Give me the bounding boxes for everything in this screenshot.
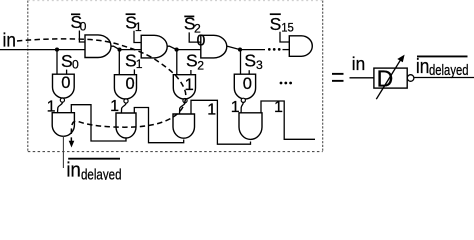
wire: trunk gate2 out to gate3 <box>167 46 201 49</box>
svg-text:S: S <box>244 51 256 71</box>
wire U2 bubble to B2 <box>180 103 186 114</box>
svg-text:0: 0 <box>80 19 87 33</box>
wire: input trunk <box>0 49 85 51</box>
wire staircase from stage4 into B3 right input <box>261 101 315 139</box>
dashed enclosure box <box>27 1 29 152</box>
label in_delayed (output, bottom) <box>66 159 121 184</box>
variable arrow through D box <box>376 58 401 99</box>
label S2 <box>186 51 204 73</box>
nand U0 (select stage 0) <box>52 74 74 98</box>
wire U3 bubble to B3 <box>241 102 243 112</box>
wire S3 stub <box>248 70 250 74</box>
dashed signal path <box>17 39 186 141</box>
label S0 <box>61 51 79 72</box>
label S1 <box>125 50 143 71</box>
equivalence sign = <box>332 73 344 75</box>
node tap1 junction <box>117 48 121 52</box>
svg-text:0: 0 <box>72 58 79 72</box>
and-gate G0 (top row) <box>85 35 111 58</box>
svg-text:1: 1 <box>136 57 143 71</box>
svg-text:2: 2 <box>197 58 204 72</box>
svg-text:in: in <box>3 30 16 51</box>
svg-text:0: 0 <box>61 74 70 92</box>
nand U3 (select stage 3) <box>234 74 255 99</box>
and-gate B3 (bottom row) <box>239 113 262 140</box>
label S0bar <box>71 12 87 33</box>
wire into delay box <box>350 77 374 79</box>
arrowhead of dashed path <box>69 141 75 148</box>
svg-text:delayed: delayed <box>429 63 469 79</box>
label S3 <box>244 51 263 73</box>
node tap0 junction <box>55 48 59 52</box>
wire tap2 down <box>176 50 178 75</box>
delay element D box <box>374 68 407 88</box>
svg-text:3: 3 <box>256 58 263 72</box>
and-gate G2 (top row) <box>201 35 227 58</box>
svg-text:D: D <box>377 66 394 92</box>
and-gate G3 (top row, S15 stage) <box>289 36 312 57</box>
bubble on D box output <box>407 75 414 82</box>
and-gate B2 (bottom row) <box>173 114 195 138</box>
wire S0bar to G0 <box>79 31 85 43</box>
wire: trunk stub into last gate <box>283 49 290 51</box>
label in_delayed (right side) <box>416 56 469 79</box>
svg-text:S: S <box>186 51 198 71</box>
svg-text:S: S <box>61 51 73 71</box>
trunk ellipsis dots <box>268 48 271 51</box>
node tap2 junction <box>175 48 179 52</box>
wire: trunk gate3 out toward dots <box>227 46 266 50</box>
svg-text:0: 0 <box>243 75 252 93</box>
svg-text:0: 0 <box>126 75 135 93</box>
label S2bar <box>184 14 201 36</box>
wire S15bar to G3 <box>280 32 289 42</box>
svg-text:in: in <box>352 54 365 74</box>
wire B0 output down to in_delayed <box>62 136 64 168</box>
wire U0 bubble to B0 <box>58 102 63 113</box>
mid ellipsis dots <box>280 82 283 85</box>
wire S1bar to G1 <box>134 31 141 43</box>
nand U1 (select stage 1) <box>114 75 136 99</box>
svg-text:delayed: delayed <box>81 168 122 181</box>
wire tap1 down <box>118 50 120 75</box>
bubble U0 <box>60 98 64 102</box>
wire staircase B2 out to B1 right input <box>134 108 183 143</box>
node tap3 junction <box>238 48 242 52</box>
nand U2 (select stage 2, selected) <box>173 75 195 99</box>
svg-text:in: in <box>66 159 80 180</box>
label S15bar <box>270 14 294 35</box>
and-gate B1 (bottom row) <box>116 113 136 138</box>
wire staircase B1 out to B0 right input <box>71 105 126 141</box>
wire tap0 down <box>56 50 58 75</box>
and-gate G1 (top row) <box>141 35 167 58</box>
bubble U3 <box>241 98 245 102</box>
svg-text:S: S <box>270 14 282 34</box>
svg-text:1: 1 <box>207 102 216 119</box>
wire: trunk gate1 out to gate2 <box>111 46 141 49</box>
wire tap3 down <box>240 50 242 75</box>
bubble U2 <box>183 99 187 103</box>
svg-text:1: 1 <box>185 76 194 94</box>
svg-text:in: in <box>416 56 429 78</box>
svg-text:15: 15 <box>281 21 294 35</box>
bubble U1 <box>124 99 128 103</box>
svg-text:0: 0 <box>197 32 206 49</box>
wire U1 bubble to B1 <box>121 103 126 113</box>
svg-text:1: 1 <box>135 20 142 34</box>
svg-text:1: 1 <box>274 99 283 116</box>
wire S2 stub <box>190 70 192 75</box>
and-gate B0 (bottom row) <box>52 113 74 137</box>
wire S2bar to G2 <box>189 32 201 42</box>
wire staircase B3 out to B2 right input <box>191 100 251 144</box>
label S1bar <box>125 13 142 34</box>
wire S1 stub <box>133 69 135 74</box>
wire S0 stub <box>66 70 68 75</box>
wire delay output <box>414 77 474 79</box>
